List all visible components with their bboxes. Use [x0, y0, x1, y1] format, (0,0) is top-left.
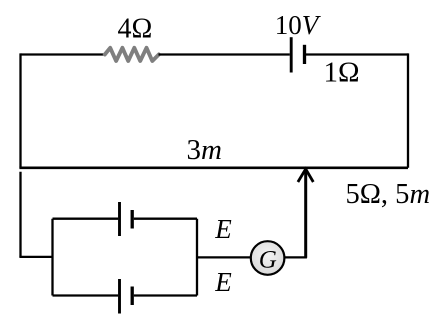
svg-text:3m: 3m [187, 134, 222, 166]
wire middle-left connector to parallel cells [19, 256, 52, 258]
cell E1 short plate [131, 210, 134, 229]
svg-text:1Ω: 1Ω [324, 57, 360, 89]
wire parallel-cells right vertical [196, 219, 198, 296]
wire parallel-cells left vertical [51, 219, 53, 296]
wire top branch right segment [134, 218, 197, 220]
cell E2 long plate [118, 279, 121, 314]
svg-text:E: E [214, 267, 232, 297]
wire battery to top-right corner [306, 53, 408, 55]
wire top branch left segment [53, 218, 119, 220]
wire left vertical down to cell branch [19, 172, 21, 257]
wire right side vertical [407, 53, 409, 167]
wire top-left: corner to resistor [21, 53, 105, 55]
wire left side vertical (top loop) [19, 53, 21, 167]
battery V1 10V short plate (-) [303, 45, 306, 64]
battery V1 10V long plate (+) [290, 37, 293, 72]
cell E2 short plate [131, 287, 134, 306]
wire middle-right connector to galvanometer [197, 256, 251, 258]
wire bottom branch left segment [53, 294, 119, 296]
galvanometer G body [251, 241, 285, 275]
wire galvanometer to jockey [285, 256, 307, 258]
resistor R1 (4 ohm) zigzag [105, 48, 159, 61]
svg-text:E: E [214, 214, 232, 244]
wire bottom branch right segment [134, 294, 197, 296]
potentiometer wire AB (bottom of loop, 3m) [19, 167, 408, 170]
svg-text:G: G [259, 246, 277, 273]
svg-text:4Ω: 4Ω [118, 14, 153, 45]
jockey arrow shaft [304, 170, 307, 258]
svg-text:5Ω, 5m: 5Ω, 5m [346, 179, 431, 210]
wire resistor to battery V1 [159, 53, 290, 55]
cell E1 long plate [118, 202, 121, 236]
svg-text:10V: 10V [275, 10, 322, 40]
jockey arrow head [298, 169, 313, 182]
